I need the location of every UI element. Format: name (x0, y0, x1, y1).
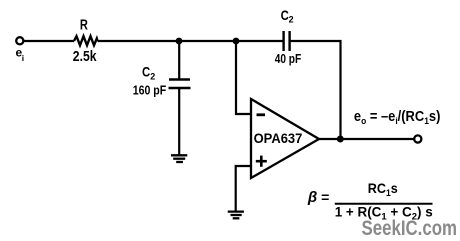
wire node B down to op-amp inverting input (236, 41, 251, 114)
node B junction dot (233, 38, 240, 45)
wire op-amp non-inverting input to ground (236, 166, 251, 212)
wire op-amp output to node C (319, 138, 341, 140)
wire input to resistor (24, 40, 75, 42)
op-amp U1 OPA637 triangle (251, 99, 319, 178)
resistor R (74, 36, 98, 45)
svg-text:C: C (142, 63, 150, 79)
input terminal e_i (16, 37, 23, 44)
wire resistor to node A (98, 40, 180, 42)
op-amp non-inverting pin + symbol (256, 156, 267, 167)
capacitor C2 40pF plates (282, 31, 284, 51)
svg-text:SeekIC.com: SeekIC.com (362, 217, 458, 240)
beta equation fraction bar (335, 203, 433, 205)
wire capacitor C2 (40pF) to right vertical feedback wire (290, 41, 341, 139)
svg-text:40 pF: 40 pF (275, 52, 302, 66)
svg-text:OPA637: OPA637 (254, 131, 303, 146)
node A junction dot (176, 38, 183, 45)
node C junction dot (output / feedback) (337, 136, 344, 143)
svg-text:β =: β = (307, 189, 329, 206)
wire node B to capacitor C2 (40pF) (236, 40, 284, 42)
svg-text:R: R (80, 17, 88, 34)
output terminal e_o (414, 135, 421, 142)
svg-text:i: i (22, 53, 24, 63)
capacitor C2 160pF plates (169, 78, 190, 80)
op-amp inverting pin - symbol (257, 113, 266, 116)
wire capacitor C2 to ground (178, 88, 180, 155)
svg-text:C: C (281, 7, 289, 23)
ground (right, at non-inverting input) (228, 212, 244, 219)
wire node A to node B (179, 40, 236, 42)
wire node C to output terminal (341, 138, 414, 140)
wire node A down to capacitor C2 (160pF) (178, 41, 180, 80)
ground (left, under C2 160pF) (171, 155, 187, 162)
svg-text:2: 2 (150, 71, 155, 81)
svg-text:2.5k: 2.5k (73, 49, 97, 65)
svg-text:2: 2 (289, 14, 294, 24)
svg-text:160 pF: 160 pF (133, 84, 167, 98)
